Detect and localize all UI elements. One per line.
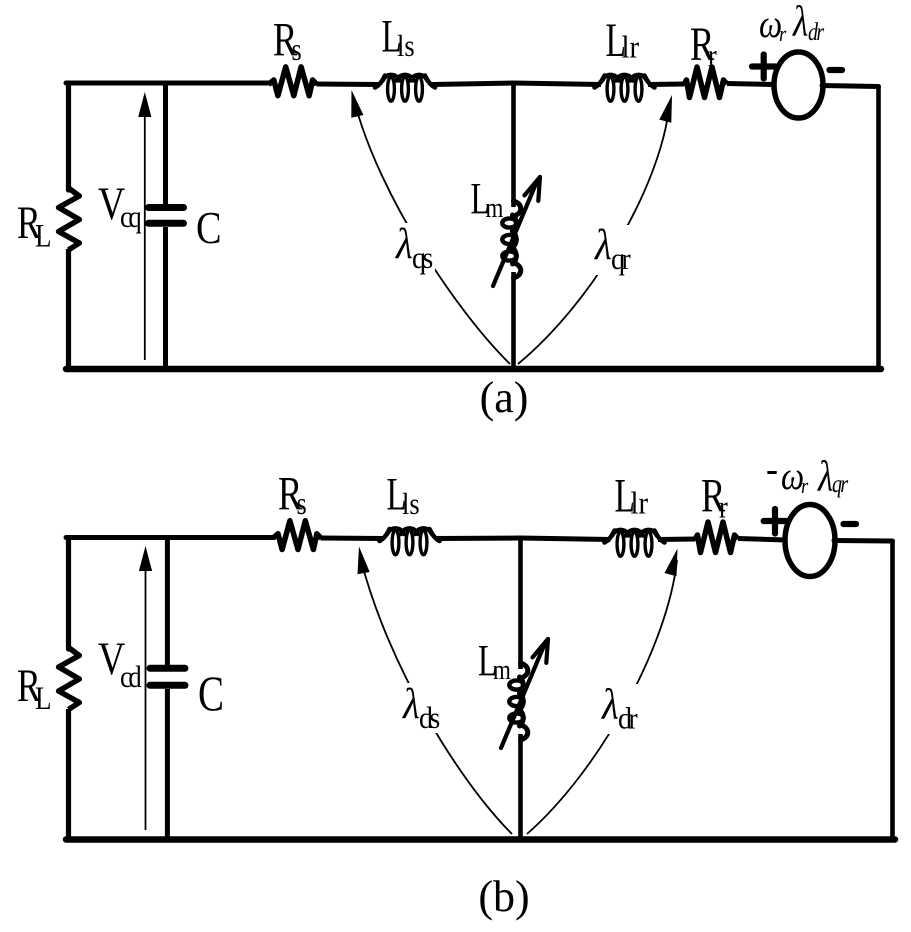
svg-text:r: r <box>801 475 808 499</box>
curve lqs (a) <box>351 90 510 364</box>
wire source-corner (b) <box>834 538 893 544</box>
svg-text:lr: lr <box>631 485 649 521</box>
resistor RL (a) <box>59 188 80 250</box>
wire left edge lower (a) <box>66 249 71 369</box>
label Vcq (a) <box>98 178 141 234</box>
label Llr (b) <box>615 469 649 522</box>
inductor Lm (b) <box>509 663 527 740</box>
svg-text:λ: λ <box>402 680 420 727</box>
wire bottom (b) <box>66 836 895 843</box>
svg-text:m: m <box>493 654 511 686</box>
label C (b) <box>198 665 224 721</box>
wire node-Llr (b) <box>521 538 611 540</box>
inductor Lls (b) <box>380 528 440 554</box>
plus sign (b) <box>764 509 787 534</box>
svg-text:m: m <box>486 192 504 224</box>
arrow Lm variable (b) <box>501 639 548 748</box>
label lqs (a) <box>391 220 435 275</box>
svg-text:ls: ls <box>402 487 420 521</box>
label Lm (b) <box>478 637 511 685</box>
svg-text:C: C <box>196 204 222 254</box>
wire bottom (a) <box>66 366 881 373</box>
resistor RL (b) <box>59 648 80 710</box>
svg-text:L: L <box>35 679 52 716</box>
wire cap lower (a) <box>163 227 168 369</box>
label Rr (b) <box>701 470 728 525</box>
wire node-Llr (a) <box>514 83 602 85</box>
svg-text:s: s <box>297 487 307 522</box>
label Lm (a) <box>471 175 504 223</box>
wire Rr-source (b) <box>738 539 786 541</box>
svg-text:r: r <box>708 39 717 74</box>
resistor Rs (b) <box>273 521 322 550</box>
label Rr (a) <box>690 18 717 73</box>
svg-text:qr: qr <box>832 470 848 498</box>
wire cap upper (a) <box>163 83 168 204</box>
label Lls (b) <box>387 468 420 522</box>
resistor Rr (b) <box>695 522 738 553</box>
label Rs (b) <box>278 468 307 522</box>
label (b) <box>478 872 529 921</box>
svg-text:(b): (b) <box>478 872 529 921</box>
wire Rs-Lls (b) <box>321 536 385 542</box>
wire node lower (b) <box>518 734 523 840</box>
wire top-left (b) <box>66 535 273 540</box>
label source wr*ldr (a) <box>759 0 824 46</box>
label source -wr*lqr (b) <box>766 447 848 500</box>
wire node upper (a) <box>511 83 516 207</box>
wire Rr-source (a) <box>727 84 775 85</box>
wire cap lower (b) <box>165 689 170 840</box>
inductor Llr (b) <box>605 530 665 556</box>
wire right edge (b) <box>890 541 895 840</box>
minus sign (b) <box>844 521 857 527</box>
label Vcd (b) <box>98 633 142 694</box>
capacitor C plates (b) <box>150 668 185 685</box>
source ellipse (a) <box>774 52 823 118</box>
minus sign (a) <box>830 67 843 73</box>
source ellipse (b) <box>785 505 835 577</box>
wire node lower (a) <box>511 272 516 369</box>
svg-text:lr: lr <box>622 29 640 65</box>
inductor Lls (a) <box>375 75 435 101</box>
svg-text:(a): (a) <box>480 373 529 422</box>
arrow Vcd (b) <box>139 546 152 830</box>
label Rs (a) <box>273 14 302 68</box>
label Llr (a) <box>606 13 640 66</box>
capacitor C plates (a) <box>149 208 184 224</box>
label (a) <box>480 373 529 422</box>
label lds (b) <box>398 680 442 735</box>
resistor Rr (a) <box>684 67 727 98</box>
plus sign (a) <box>752 55 776 79</box>
svg-text:L: L <box>35 217 52 254</box>
wire right edge (a) <box>876 87 881 370</box>
resistor Rs (a) <box>269 67 318 96</box>
svg-text:λ: λ <box>792 0 808 45</box>
svg-text:ls: ls <box>397 29 415 63</box>
inductor Lm (a) <box>502 201 520 278</box>
wire Lls-node (a) <box>432 83 514 85</box>
svg-text:cq: cq <box>120 200 141 234</box>
label Lls (a) <box>382 10 415 64</box>
svg-text:-: - <box>766 447 778 491</box>
wire cap upper (b) <box>165 538 170 666</box>
wire Llr-Rr (b) <box>658 537 696 543</box>
svg-text:λ: λ <box>601 681 619 728</box>
label RL (b) <box>17 660 52 716</box>
wire node upper (b) <box>518 538 523 670</box>
wire Llr-Rr (a) <box>648 82 685 88</box>
curve lds (b) <box>358 547 513 835</box>
wire left edge upper (b) <box>66 538 71 650</box>
inductor Llr (a) <box>595 75 655 101</box>
arrow Vcq (a) <box>138 92 151 360</box>
wire Rs-Lls (a) <box>317 82 379 88</box>
arrow Lm variable (a) <box>493 177 540 286</box>
svg-text:s: s <box>292 33 302 68</box>
svg-text:r: r <box>779 23 786 47</box>
wire Lls-node (b) <box>436 536 521 542</box>
wire left edge lower (b) <box>66 709 71 840</box>
label lqr (a) <box>590 221 634 276</box>
label C (a) <box>196 204 222 254</box>
wire source-corner (a) <box>822 86 879 87</box>
label ldr (b) <box>597 681 641 736</box>
svg-text:λ: λ <box>395 220 413 267</box>
wire top-left (a) <box>66 81 269 86</box>
svg-text:r: r <box>719 490 728 525</box>
label RL (a) <box>17 197 52 254</box>
svg-text:λ: λ <box>594 221 612 268</box>
svg-text:cd: cd <box>120 660 142 694</box>
svg-text:C: C <box>198 665 224 721</box>
curve ldr (b) <box>527 549 678 835</box>
wire left edge upper (a) <box>66 83 71 190</box>
svg-text:λ: λ <box>817 452 833 500</box>
curve lqr (a) <box>518 95 672 364</box>
svg-text:dr: dr <box>808 18 824 46</box>
